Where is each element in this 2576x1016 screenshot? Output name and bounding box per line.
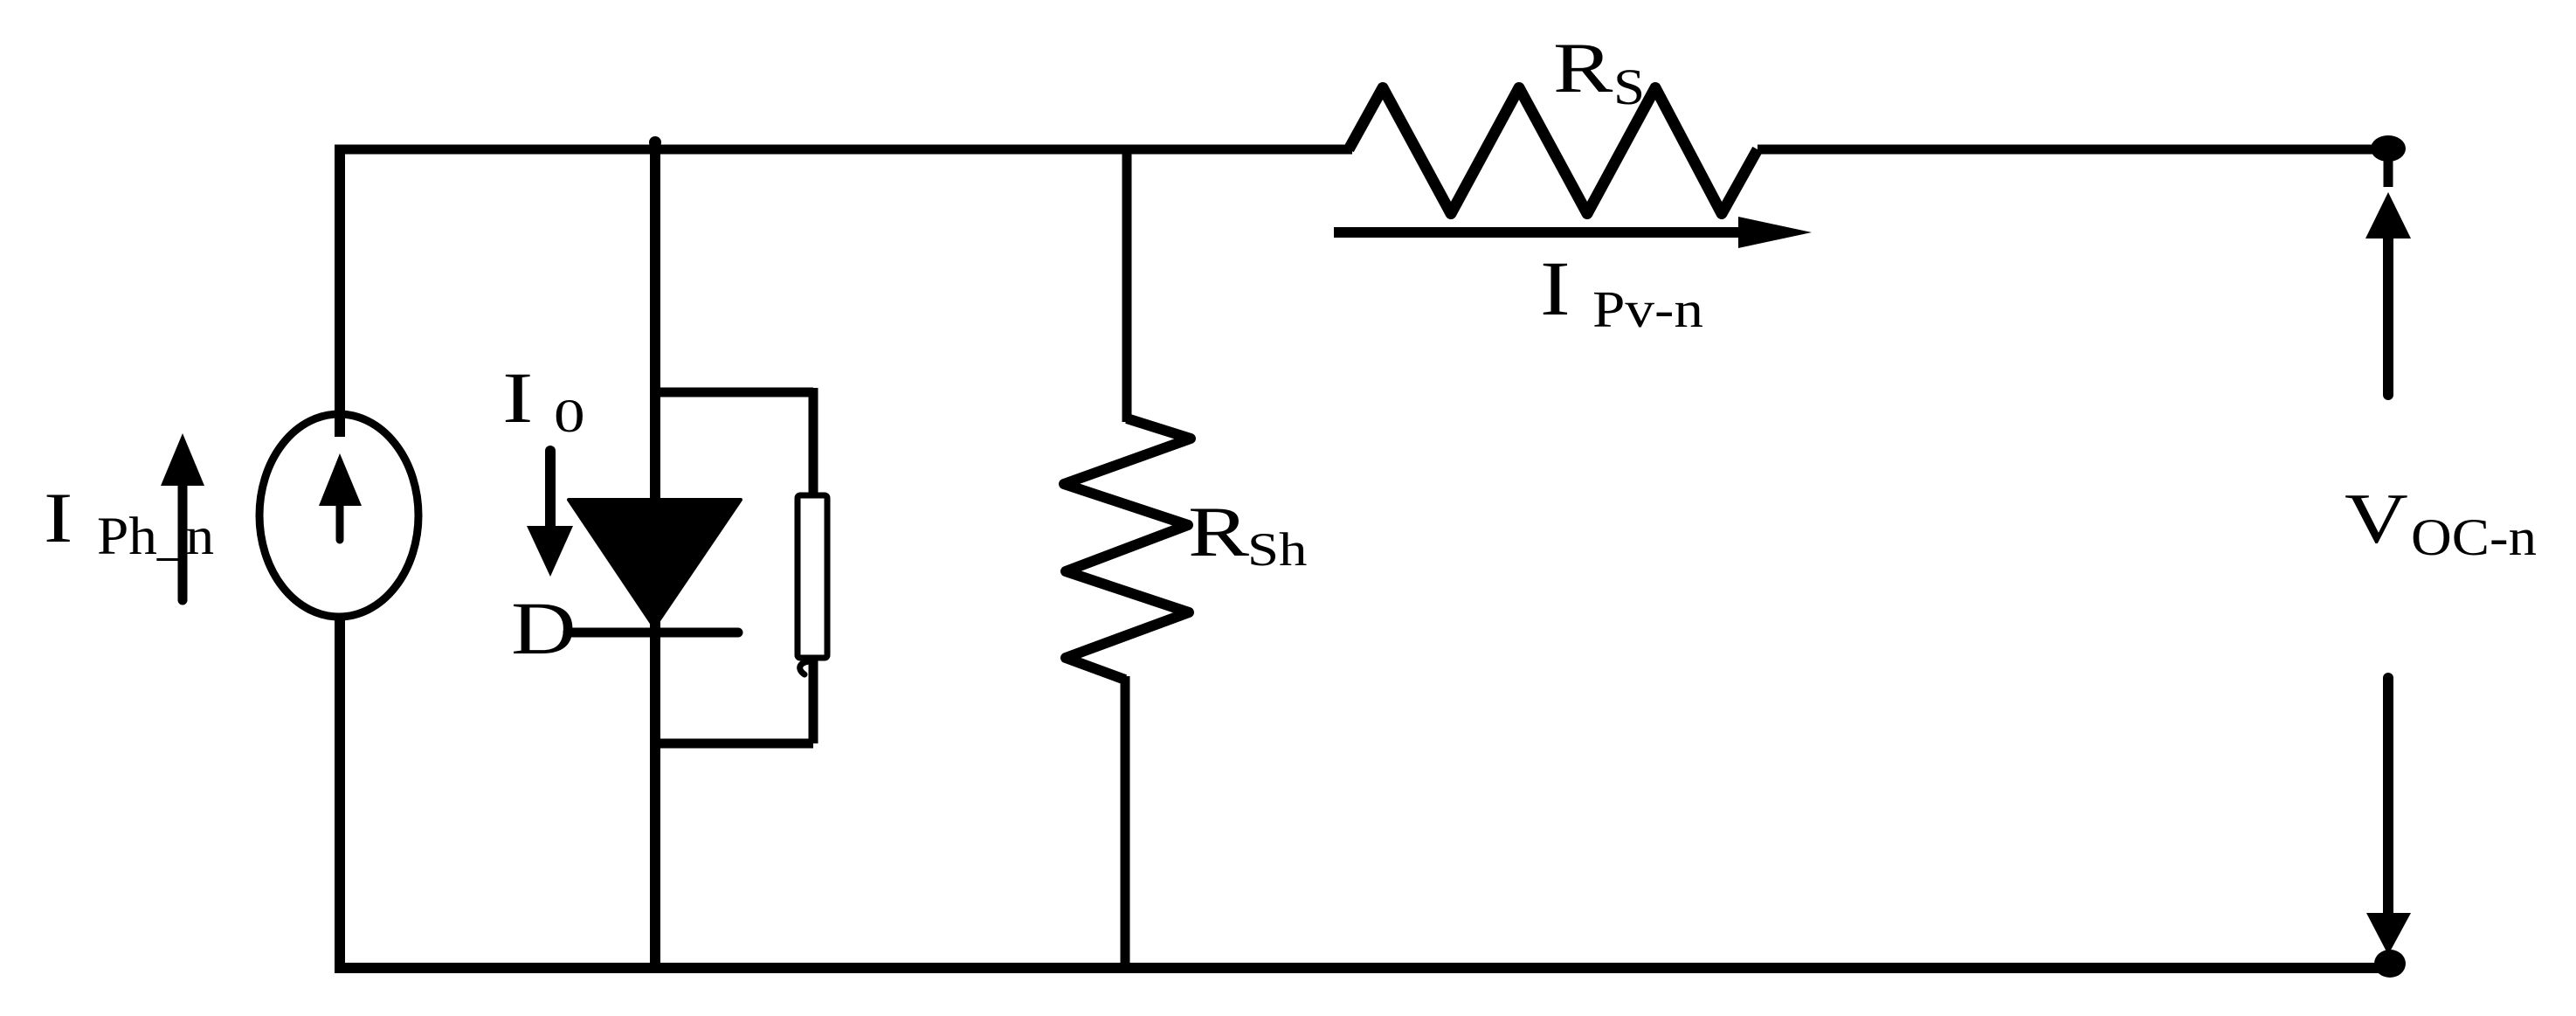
wire top rail right bbox=[1758, 145, 2378, 155]
arrow V_OC-n lower (down) bbox=[2366, 678, 2411, 955]
wire R_Sh branch bottom bbox=[1121, 676, 1130, 973]
node dot top right bbox=[2371, 135, 2406, 162]
wire parallel branch bottom bbox=[655, 739, 813, 749]
current source arrow bbox=[319, 453, 362, 540]
svg-text:0: 0 bbox=[554, 390, 585, 442]
svg-text:V: V bbox=[2345, 479, 2408, 558]
svg-text:OC-n: OC-n bbox=[2411, 508, 2537, 566]
arrow current I_Pv-n bbox=[1334, 217, 1812, 248]
arrow V_OC-n upper (up) bbox=[2365, 192, 2411, 395]
arrow for I_0 (down) bbox=[527, 451, 573, 577]
svg-text:I: I bbox=[1540, 245, 1571, 331]
resistor rectangle (European symbol) bbox=[798, 495, 827, 658]
current source U ellipse bbox=[259, 414, 418, 617]
wire parallel branch right upper bbox=[809, 388, 818, 495]
label V_OC-n bbox=[2345, 479, 2537, 567]
svg-text:Ph_n: Ph_n bbox=[97, 507, 214, 566]
small hook under rectangle bbox=[800, 661, 811, 674]
svg-text:I: I bbox=[44, 477, 73, 556]
wire R_Sh branch top bbox=[1122, 145, 1132, 423]
diode D triangle bbox=[569, 500, 741, 627]
svg-text:I: I bbox=[502, 357, 533, 438]
label I_0 bbox=[502, 357, 585, 442]
wire top rail left bbox=[335, 145, 1353, 155]
resistor R_Sh zigzag bbox=[1064, 418, 1191, 680]
diode cathode bar bbox=[568, 628, 738, 638]
wire left vertical bottom bbox=[335, 614, 345, 973]
wire stub below top-right node bbox=[2384, 156, 2393, 187]
wire left vertical top bbox=[335, 145, 345, 438]
label I_Pv-n bbox=[1540, 245, 1703, 338]
label R_Sh bbox=[1188, 493, 1308, 576]
node dot bottom right bbox=[2374, 950, 2406, 978]
wire parallel branch top bbox=[655, 388, 813, 397]
svg-text:R: R bbox=[1553, 29, 1613, 108]
arrow for I_Ph_n (up) bbox=[161, 433, 204, 600]
svg-text:Sh: Sh bbox=[1247, 523, 1308, 576]
wire bottom rail bbox=[335, 963, 2391, 973]
svg-text:D: D bbox=[511, 586, 577, 670]
resistor R_S zigzag bbox=[1349, 88, 1758, 214]
wire parallel branch right lower bbox=[809, 658, 818, 743]
svg-text:S: S bbox=[1613, 59, 1645, 115]
wire diode branch vertical bbox=[650, 145, 660, 974]
svg-text:Pv-n: Pv-n bbox=[1592, 281, 1703, 338]
label R_S bbox=[1553, 29, 1645, 116]
node junction bump at diode branch top bbox=[649, 136, 661, 149]
svg-text:R: R bbox=[1188, 493, 1249, 572]
label I_Ph_n bbox=[44, 477, 214, 565]
